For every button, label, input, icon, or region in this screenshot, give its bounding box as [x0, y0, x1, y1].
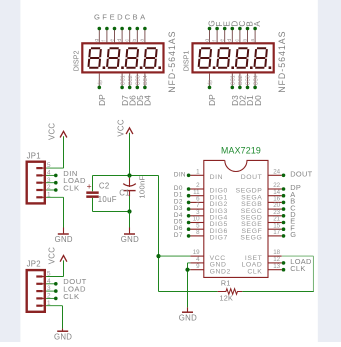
svg-text:17: 17: [273, 229, 280, 236]
svg-text:NFD-5641AS: NFD-5641AS: [167, 30, 177, 92]
MAX7219 pin 9 GND2: [190, 263, 231, 276]
DISP1 segment pin E wire + net stub E: [220, 21, 232, 43]
MAX7219 pin 2 DIG0 with net stub D0: [174, 182, 228, 195]
JP2 pin 2 wire + net stub CLK: [46, 292, 79, 301]
DISP1 bottom pin CC3 wire + net stub D1: [245, 74, 255, 106]
svg-text:GND2: GND2: [210, 268, 231, 275]
7-segment display DISP1 NFD-5641AS body: [193, 43, 274, 72]
svg-text:CC4: CC4: [143, 75, 149, 85]
svg-text:VCC: VCC: [116, 119, 125, 136]
ground symbol below JP2: [54, 329, 72, 342]
wire VCC rail down right side to pin 19: [158, 176, 160, 292]
svg-text:C: C: [125, 13, 131, 22]
MAX7219 pin 21 SEGE with net stub E: [241, 216, 295, 229]
node VCC junction at rail: [127, 173, 131, 177]
svg-text:CLK: CLK: [247, 268, 262, 275]
DISP2 bottom pin CC1 wire + net stub D7: [120, 74, 130, 106]
JP2 pin 4 wire + net stub DOUT: [46, 277, 87, 286]
MAX7219 pin 13 CLK with net stub CLK: [247, 263, 305, 276]
svg-text:GND: GND: [121, 235, 139, 244]
MAX7219 pin 20 SEGC with net stub C: [241, 202, 297, 215]
MAX7219 pin 19 VCC: [190, 249, 225, 262]
wire GND rail below capacitors: [93, 211, 130, 213]
svg-text:F: F: [102, 13, 107, 22]
svg-text:CLK: CLK: [290, 264, 305, 273]
MAX7219 pin 10 DIG5 with net stub D5: [174, 216, 228, 229]
svg-text:DIN: DIN: [174, 171, 186, 178]
svg-text:E: E: [110, 13, 115, 22]
capacitor C1 100nF: [119, 176, 146, 212]
ground symbol below JP1: [55, 228, 73, 244]
node junction VCC branch to pin 19: [156, 254, 160, 258]
MAX7219 pin 14 SEGA with net stub A: [241, 189, 295, 202]
svg-text:e: e: [220, 39, 226, 42]
svg-text:GND: GND: [54, 333, 72, 342]
svg-text:CC2: CC2: [128, 75, 134, 85]
MAX7219 pin 23 SEGD with net stub D: [241, 209, 296, 222]
svg-text:DOUT: DOUT: [290, 170, 312, 179]
svg-text:dp: dp: [208, 80, 214, 86]
wire junction to MAX7219 VCC pin 19: [159, 255, 191, 257]
DISP1 segment pin D wire + net stub D: [227, 21, 239, 43]
svg-text:1: 1: [196, 168, 200, 175]
svg-text:JP1: JP1: [27, 151, 41, 160]
svg-text:DOUT: DOUT: [241, 174, 263, 181]
op-amp/IC U1 MAX7219 body: [204, 160, 268, 277]
svg-text:G: G: [290, 230, 296, 239]
svg-text:13: 13: [273, 263, 280, 270]
DISP2 bottom pin CC3 wire + net stub D5: [135, 74, 145, 106]
svg-text:D7: D7: [174, 232, 183, 239]
VCC symbol above JP1: [47, 123, 67, 140]
svg-text:9: 9: [196, 263, 200, 270]
svg-text:CC3: CC3: [136, 75, 142, 85]
MAX7219 pin 16 SEGB with net stub B: [241, 196, 295, 209]
DISP1 segment pin F wire + net stub F: [212, 22, 224, 43]
DISP1 bottom pin CC1 wire + net stub D3: [230, 74, 240, 106]
capacitor C2 10uF (polarized): [86, 176, 116, 212]
svg-text:CC1: CC1: [231, 75, 237, 85]
VCC symbol above C1/C2: [116, 119, 133, 136]
svg-text:B: B: [132, 13, 137, 22]
JP1 pin 4 wire + net stub DIN: [46, 169, 78, 178]
svg-text:12K: 12K: [219, 294, 233, 303]
svg-text:e: e: [109, 39, 115, 42]
wire JP2 pin 1 to GND: [46, 306, 62, 329]
ground symbol below MAX7219: [179, 307, 197, 322]
DISP1 segment pin G wire + net stub G: [204, 20, 216, 43]
svg-text:VCC: VCC: [47, 123, 56, 140]
MAX7219 pin 3 DIG4 with net stub D4: [174, 209, 228, 222]
svg-text:D: D: [117, 13, 123, 22]
svg-text:VCC: VCC: [47, 247, 56, 264]
svg-text:d: d: [227, 39, 233, 42]
MAX7219 pin 18 ISET: [245, 249, 282, 262]
node GND junction below C1: [127, 209, 131, 213]
DISP2 segment pin D wire + net stub D: [117, 13, 124, 43]
svg-text:DISP2: DISP2: [71, 51, 80, 72]
svg-text:a: a: [250, 39, 256, 42]
wire JP2 pin 5 to VCC: [46, 260, 63, 276]
svg-text:DISP1: DISP1: [182, 51, 191, 72]
JP1 pin 2 wire + net stub CLK: [46, 183, 79, 192]
svg-text:DP: DP: [207, 94, 217, 106]
svg-text:a: a: [140, 39, 146, 42]
svg-text:D4: D4: [143, 95, 153, 106]
DISP2 segment pin B wire + net stub B: [132, 13, 139, 43]
svg-text:10uF: 10uF: [98, 195, 117, 204]
DISP2 segment pin A wire + net stub A: [140, 13, 147, 43]
svg-text:100nF: 100nF: [138, 176, 147, 199]
svg-text:NFD-5641AS: NFD-5641AS: [277, 30, 287, 92]
MAX7219 pin 1 DIN with net stub DIN: [174, 168, 223, 181]
DISP2 bottom pin CC4 wire + net stub D4: [143, 74, 153, 106]
DISP1 segment pin C wire + net stub C: [235, 21, 247, 43]
DISP2 segment pin F wire + net stub F: [102, 13, 109, 43]
DISP1 segment pin A wire + net stub A: [250, 21, 262, 43]
svg-text:8: 8: [196, 229, 200, 236]
wire MAX7219 GND pin 4 to ground rail: [188, 263, 191, 308]
svg-text:R1: R1: [221, 279, 231, 288]
wire JP1 pin 5 to VCC: [46, 136, 63, 168]
svg-text:GND: GND: [55, 235, 73, 244]
MAX7219 pin 11 DIG1 with net stub D1: [174, 189, 228, 202]
DISP1 bottom pin CC2 wire + net stub D2: [238, 74, 248, 106]
svg-text:JP2: JP2: [27, 260, 41, 269]
MAX7219 pin 7 DIG3 with net stub D3: [174, 202, 228, 215]
MAX7219 pin 8 DIG7 with net stub D7: [174, 229, 228, 242]
7-segment display DISP2 NFD-5641AS body: [82, 43, 163, 72]
MAX7219 pin 5 DIG6 with net stub D6: [174, 222, 228, 235]
VCC symbol above JP2: [47, 247, 67, 264]
MAX7219 pin 4 GND: [190, 256, 226, 269]
svg-text:CC1: CC1: [120, 75, 126, 85]
svg-text:CC2: CC2: [238, 75, 244, 85]
DISP2 segment pin G wire + net stub G: [94, 13, 101, 43]
DISP1 bottom pin CC4 wire + net stub D0: [253, 74, 263, 106]
svg-text:A: A: [253, 21, 262, 27]
MAX7219 pin 6 DIG2 with net stub D2: [174, 196, 228, 209]
DISP2 bottom pin CC2 wire + net stub D6: [127, 74, 137, 106]
svg-text:24: 24: [273, 168, 280, 175]
svg-text:C1: C1: [119, 189, 130, 198]
svg-text:CLK: CLK: [63, 183, 79, 192]
MAX7219 pin 15 SEGF with net stub F: [241, 222, 295, 235]
svg-text:DIN: DIN: [210, 174, 224, 181]
MAX7219 pin 24 DOUT with net stub DOUT: [241, 168, 313, 181]
JP2 pin 3 wire + net stub LOAD: [46, 285, 86, 294]
MAX7219 pin 17 SEGG with net stub G: [240, 229, 296, 242]
svg-text:+: +: [87, 181, 92, 191]
connector JP1 body: [27, 162, 46, 204]
ground symbol below capacitors: [121, 228, 139, 244]
svg-text:CC3: CC3: [246, 75, 252, 85]
svg-text:SEGG: SEGG: [240, 235, 262, 242]
connector JP2 body: [27, 270, 46, 312]
svg-text:D0: D0: [253, 95, 263, 106]
DISP2 segment pin C wire + net stub C: [125, 13, 132, 43]
wire VCC rail above capacitors: [93, 133, 159, 176]
svg-text:b: b: [242, 39, 248, 42]
DISP1 bottom pin dp wire + net stub DP: [207, 74, 217, 106]
svg-text:GND: GND: [179, 314, 197, 323]
MAX7219 pin 12 LOAD with net stub LOAD: [241, 256, 311, 269]
wire R1 to MAX7219 ISET pin 18: [242, 256, 314, 291]
MAX7219 pin 22 SEGDP with net stub DP: [236, 182, 302, 195]
wire C1 junction down to ground: [129, 212, 131, 228]
JP1 pin 3 wire + net stub LOAD: [46, 176, 86, 185]
svg-text:CLK: CLK: [63, 292, 79, 301]
DISP1 segment pin B wire + net stub B: [242, 21, 254, 43]
svg-text:DP: DP: [97, 94, 107, 106]
wire MAX7219 GND2 pin 9 to ground rail: [188, 269, 191, 271]
wire JP1 pin 1 to GND: [46, 197, 63, 227]
resistor R1 12K: [218, 279, 243, 303]
svg-text:MAX7219: MAX7219: [221, 145, 261, 155]
wire VCC line to resistor R1: [159, 291, 218, 293]
svg-text:b: b: [132, 39, 138, 42]
svg-text:d: d: [117, 39, 123, 42]
svg-text:g: g: [204, 39, 210, 42]
DISP2 bottom pin dp wire + net stub DP: [97, 74, 107, 106]
svg-text:g: g: [94, 39, 100, 42]
svg-text:DIG7: DIG7: [210, 235, 228, 242]
svg-text:G: G: [94, 13, 100, 22]
node junction GND2 on ground rail: [185, 268, 189, 272]
svg-text:dp: dp: [98, 80, 104, 86]
svg-text:CC4: CC4: [253, 75, 259, 85]
svg-text:C2: C2: [99, 182, 110, 191]
DISP2 segment pin E wire + net stub E: [109, 13, 116, 43]
